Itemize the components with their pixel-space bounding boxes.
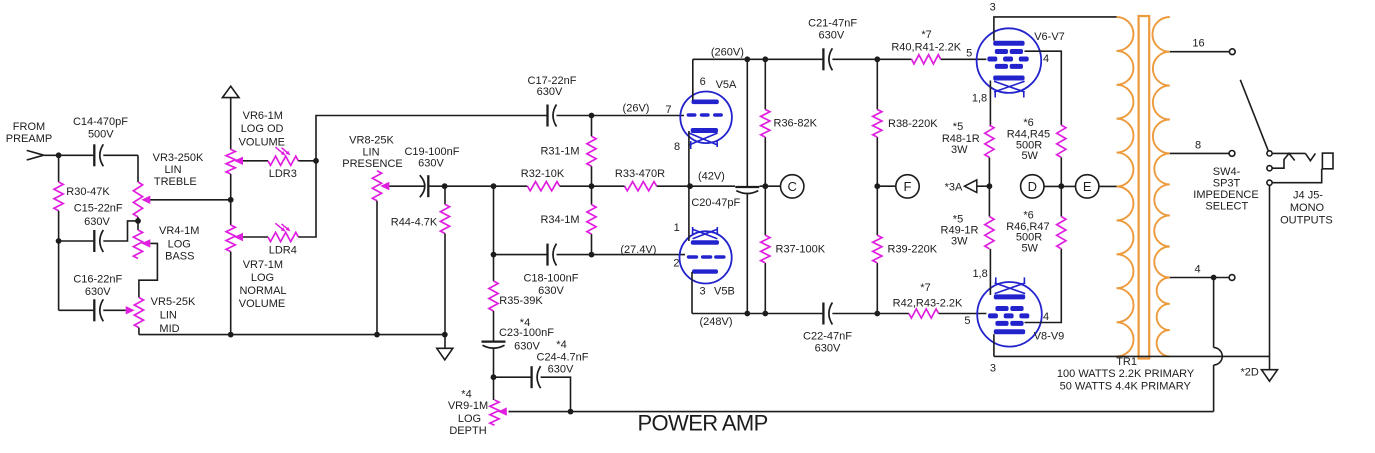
svg-text:*4: *4 [556, 339, 566, 351]
svg-text:630V: 630V [819, 29, 845, 41]
resistor R37 [761, 235, 770, 263]
svg-text:8: 8 [1195, 140, 1201, 152]
svg-text:TREBLE: TREBLE [154, 176, 197, 188]
svg-text:*6: *6 [1023, 117, 1033, 129]
node [744, 56, 750, 62]
svg-text:630V: 630V [815, 343, 841, 355]
svg-text:2: 2 [673, 257, 679, 269]
svg-text:VR8-25K: VR8-25K [349, 135, 394, 147]
capacitor C22 [822, 303, 824, 325]
transformer TR1 primary winding [1117, 17, 1134, 356]
svg-text:R40,R41-2.2K: R40,R41-2.2K [891, 41, 961, 53]
svg-text:630V: 630V [537, 86, 563, 98]
potentiometer VR8 [372, 171, 381, 201]
svg-text:4: 4 [1194, 264, 1200, 276]
tube V5A envelope [680, 92, 732, 144]
wire NFB rail [509, 411, 1214, 413]
switch SW4 lever [1240, 80, 1268, 151]
potentiometer VR3 [133, 182, 142, 217]
node VR3-wiper junction [228, 197, 234, 203]
svg-text:(248V): (248V) [699, 316, 732, 328]
svg-text:C18-100nF: C18-100nF [523, 273, 578, 285]
svg-text:VR9-1M: VR9-1M [448, 400, 488, 412]
svg-text:C: C [788, 179, 797, 194]
wire [832, 58, 911, 60]
wire 260V rail [693, 58, 823, 60]
resistor R44 [440, 204, 449, 233]
wire [58, 211, 60, 311]
transformer TR1 secondary winding [1152, 17, 1169, 356]
tube V6-V7 screen grid [995, 49, 1008, 54]
svg-text:*6: *6 [1023, 209, 1033, 221]
tube V8-V9 screen grid [995, 321, 1008, 326]
wire tap 16 [1170, 51, 1230, 53]
svg-text:R36-82K: R36-82K [774, 117, 818, 129]
svg-text:MONO: MONO [1290, 202, 1325, 214]
svg-text:C24-4.7nF: C24-4.7nF [537, 352, 589, 364]
svg-text:TR1: TR1 [1116, 356, 1137, 368]
svg-text:POWER AMP: POWER AMP [637, 411, 767, 436]
wire VR3 wiper [150, 199, 230, 201]
svg-text:*4: *4 [461, 389, 471, 401]
svg-text:C15-22nF: C15-22nF [74, 203, 123, 215]
wire NFB with hop [1213, 278, 1215, 348]
svg-text:4: 4 [1043, 311, 1049, 323]
svg-text:4: 4 [1043, 53, 1049, 65]
capacitor C14 [93, 144, 95, 166]
svg-text:500V: 500V [88, 129, 114, 141]
wire [494, 376, 531, 378]
tube V8-V9 control grid [988, 313, 998, 318]
svg-text:C21-47nF: C21-47nF [808, 18, 857, 30]
tube V8-V9 envelope [977, 282, 1042, 347]
potentiometer VR5 [134, 298, 143, 328]
wire pin3 [691, 272, 693, 314]
wire [1099, 185, 1117, 187]
svg-text:LOG OD: LOG OD [241, 123, 284, 135]
svg-text:VR7-1M: VR7-1M [243, 259, 283, 271]
resistor R42 R43 [909, 309, 939, 318]
node [491, 374, 497, 380]
resistor R46,R47 [1057, 217, 1066, 249]
svg-text:C20-47pF: C20-47pF [691, 197, 740, 209]
LDR LDR3 [268, 156, 298, 165]
svg-text:J4 J5-: J4 J5- [1293, 190, 1323, 202]
resistor R39 [873, 235, 882, 263]
svg-text:SP3T: SP3T [1213, 178, 1241, 190]
capacitor C20 [735, 186, 759, 188]
wire [941, 58, 987, 60]
wire pin1 [688, 186, 690, 241]
svg-text:50 WATTS 4.4K PRIMARY: 50 WATTS 4.4K PRIMARY [1060, 381, 1192, 393]
wire C20 line [746, 59, 748, 187]
wire pin3 [994, 17, 1117, 41]
svg-text:*3A: *3A [945, 181, 963, 193]
wire tap 8 [1170, 152, 1229, 154]
node [762, 311, 768, 317]
svg-text:R35-39K: R35-39K [499, 295, 543, 307]
tube V6-V7 envelope [977, 28, 1042, 93]
wire [103, 154, 138, 156]
svg-text:IMPEDENCE: IMPEDENCE [1193, 189, 1258, 201]
tube V8-V9 cathode [994, 294, 1025, 299]
wire [103, 221, 138, 241]
svg-text:1: 1 [674, 222, 680, 234]
svg-text:PREAMP: PREAMP [6, 133, 52, 145]
wire [493, 311, 495, 342]
LDR LDR4 [268, 232, 298, 241]
wire [494, 185, 528, 187]
svg-text:C23-100nF: C23-100nF [499, 327, 554, 339]
svg-text:C14-470pF: C14-470pF [73, 116, 128, 128]
svg-text:NORMAL: NORMAL [239, 285, 286, 297]
wire [376, 201, 378, 335]
wire [428, 185, 493, 187]
svg-text:C22-47nF: C22-47nF [803, 331, 852, 343]
svg-text:R30-47K: R30-47K [66, 186, 110, 198]
svg-text:*5: *5 [953, 121, 963, 133]
resistor R49 [985, 217, 994, 249]
node [1058, 183, 1064, 189]
svg-text:3W: 3W [951, 236, 968, 248]
arrow *3A [965, 180, 977, 193]
svg-text:630V: 630V [84, 216, 110, 228]
svg-text:VR6-1M: VR6-1M [243, 110, 283, 122]
svg-text:VOLUME: VOLUME [239, 136, 285, 148]
svg-text:SW4-: SW4- [1213, 166, 1241, 178]
svg-text:LIN: LIN [362, 146, 379, 158]
tube V5B envelope [680, 231, 732, 283]
svg-text:C16-22nF: C16-22nF [73, 274, 122, 286]
tube V6-V7 control grid [987, 57, 997, 62]
wire [103, 309, 125, 311]
transformer TR1 core [1139, 16, 1150, 359]
svg-text:7: 7 [666, 104, 672, 116]
wire [298, 160, 316, 162]
tube V5A cathode [691, 128, 718, 133]
capacitor C18 [546, 244, 548, 266]
ground *2D [1262, 370, 1278, 382]
wire [690, 185, 735, 187]
wire R36 column [764, 59, 766, 109]
svg-text:1,8: 1,8 [972, 93, 987, 105]
resistor R31 [587, 136, 596, 166]
input arrow from preamp [27, 150, 44, 155]
wire [59, 240, 94, 242]
terminal 16 [1229, 49, 1235, 55]
svg-text:100 WATTS 2.2K PRIMARY: 100 WATTS 2.2K PRIMARY [1057, 368, 1195, 380]
capacitor C19 [427, 175, 429, 197]
resistor R30 [54, 182, 63, 211]
wire [560, 185, 592, 187]
wire [58, 155, 60, 182]
svg-text:R39-220K: R39-220K [888, 244, 938, 256]
circle node E [1076, 175, 1099, 198]
svg-text:3: 3 [990, 2, 996, 14]
wire VR6 wiper [243, 160, 268, 162]
svg-text:LIN: LIN [160, 309, 177, 321]
node VR8 bottom [374, 332, 380, 338]
capacitor C15 [93, 230, 95, 252]
circle node D [1021, 175, 1044, 198]
tube V6-V7 heater [994, 81, 1025, 92]
svg-text:1,8: 1,8 [972, 268, 987, 280]
wire VR8 wiper [389, 185, 424, 187]
svg-text:OUTPUTS: OUTPUTS [1280, 215, 1333, 227]
svg-text:R38-220K: R38-220K [888, 118, 938, 130]
potentiometer VR7 [226, 225, 235, 252]
wire [493, 186, 495, 281]
jack sleeve terminal [1267, 180, 1272, 185]
node LDR junction [313, 158, 319, 164]
wire [230, 97, 232, 149]
node R35 top [491, 183, 497, 189]
tube V6-V7 suppressor [995, 64, 1008, 69]
svg-text:*7: *7 [920, 282, 930, 294]
node V5 grid junction [687, 183, 693, 189]
tube V5B cathode [691, 240, 719, 244]
resistor R38 [873, 110, 882, 138]
svg-text:5W: 5W [1021, 150, 1038, 162]
wire pin1-8 [989, 81, 991, 126]
capacitor C16 [93, 299, 95, 321]
node A1 [56, 152, 62, 158]
wire [230, 252, 232, 335]
wire pin1-8 [989, 249, 991, 295]
tube V8-V9 anode plate [994, 329, 1025, 334]
svg-text:3: 3 [700, 286, 706, 298]
svg-text:*2D: *2D [1241, 366, 1259, 378]
tube V8-V9 suppressor [995, 306, 1008, 311]
svg-text:MID: MID [159, 323, 179, 335]
svg-text:630V: 630V [548, 364, 574, 376]
svg-text:V8-V9: V8-V9 [1034, 331, 1065, 343]
wire [44, 154, 94, 156]
svg-text:LDR3: LDR3 [269, 168, 297, 180]
svg-text:LIN: LIN [164, 164, 181, 176]
capacitor C17 [546, 105, 548, 127]
wire [494, 254, 547, 256]
svg-text:FROM: FROM [13, 121, 45, 133]
svg-text:R42,R43-2.2K: R42,R43-2.2K [893, 298, 963, 310]
tube V5A grid [687, 113, 697, 116]
terminal 8 [1229, 151, 1235, 157]
svg-text:R32-10K: R32-10K [521, 168, 565, 180]
wire [592, 185, 625, 187]
svg-text:6: 6 [700, 76, 706, 88]
svg-text:V6-V7: V6-V7 [1034, 31, 1065, 43]
tube V5B anode plate [692, 269, 718, 273]
svg-text:VR3-250K: VR3-250K [153, 152, 204, 164]
wire [230, 174, 232, 225]
node C18 junction [589, 252, 595, 258]
wire pin6 [692, 59, 694, 100]
potentiometer VR9 [490, 400, 499, 425]
svg-text:(42V): (42V) [698, 171, 725, 183]
wire [444, 234, 446, 349]
circle node F [896, 175, 919, 198]
wire [138, 328, 140, 335]
node feedback tap [1211, 275, 1217, 281]
wire VR7 wiper [243, 236, 268, 238]
potentiometer VR6 [226, 149, 235, 174]
svg-text:VR4-1M: VR4-1M [159, 225, 199, 237]
svg-text:630V: 630V [418, 158, 444, 170]
svg-text:R33-470R: R33-470R [615, 168, 665, 180]
svg-text:LDR4: LDR4 [269, 245, 297, 257]
svg-text:E: E [1083, 179, 1092, 194]
wire pin4 [1025, 249, 1062, 323]
wire [541, 377, 571, 411]
svg-text:R31-1M: R31-1M [540, 146, 579, 158]
jack break contact [1272, 153, 1295, 168]
node [762, 183, 768, 189]
node VR3 bottom [135, 218, 141, 224]
tube V6-V7 cathode [993, 76, 1024, 81]
jack sleeve [1272, 169, 1322, 183]
node C19/R44 junction [442, 183, 448, 189]
node A2 [56, 238, 62, 244]
node VR7 bottom [228, 332, 234, 338]
power arrow up [222, 86, 239, 97]
svg-text:VR5-25K: VR5-25K [151, 296, 196, 308]
wire [939, 313, 987, 315]
resistor R40 R41 [912, 55, 941, 64]
svg-text:LOG: LOG [168, 238, 191, 250]
wire ground line [1269, 185, 1271, 369]
jack contact terminal [1267, 166, 1272, 171]
resistor R32 [528, 182, 560, 191]
node [874, 183, 880, 189]
wire R38 column [876, 59, 878, 109]
svg-text:630V: 630V [85, 286, 111, 298]
wire [59, 309, 94, 311]
wire [137, 217, 139, 230]
svg-text:D: D [1028, 179, 1037, 194]
resistor R36 [761, 110, 770, 138]
svg-text:V5A: V5A [716, 79, 737, 91]
svg-text:F: F [904, 179, 912, 194]
terminal 4 [1229, 275, 1235, 281]
node R31 top [589, 113, 595, 119]
svg-text:5: 5 [964, 315, 970, 327]
wire [591, 116, 593, 137]
svg-text:5W: 5W [1021, 242, 1038, 254]
tube V5A anode plate [692, 100, 719, 105]
svg-text:VOLUME: VOLUME [239, 298, 285, 310]
svg-text:16: 16 [1192, 38, 1204, 50]
tube V5B heater [693, 229, 718, 239]
wire [988, 157, 990, 216]
wire [1060, 157, 1062, 216]
resistor R34 [587, 205, 596, 235]
wire [591, 234, 593, 255]
wire tap 4 [1170, 277, 1229, 279]
svg-text:DEPTH: DEPTH [449, 425, 486, 437]
svg-text:R37-100K: R37-100K [776, 244, 826, 256]
capacitor C24 [530, 366, 532, 388]
node R32/R33 junction [589, 183, 595, 189]
wire bottom rail left [139, 334, 445, 336]
node [874, 311, 880, 317]
wire [832, 313, 909, 315]
ground [437, 348, 453, 360]
svg-text:(260V): (260V) [711, 46, 744, 58]
wire VR4 wiper [139, 243, 158, 297]
tube V5A heater [689, 133, 718, 145]
svg-text:3: 3 [990, 363, 996, 375]
resistor R33 [625, 182, 657, 191]
node [568, 409, 574, 415]
svg-text:*7: *7 [921, 29, 931, 41]
svg-text:R44-4.7K: R44-4.7K [391, 217, 438, 229]
capacitor C23 [482, 340, 506, 342]
wire [493, 348, 495, 400]
node *3A junction [987, 183, 993, 189]
wire 248V rail [692, 313, 822, 315]
wire pin8 [688, 131, 690, 186]
svg-text:8: 8 [674, 141, 680, 153]
svg-text:(26V): (26V) [623, 103, 650, 115]
tube V6-V7 anode plate [993, 41, 1024, 46]
node R35 mid [491, 252, 497, 258]
resistor R35 [489, 281, 498, 311]
tube V8-V9 heater [995, 283, 1026, 294]
svg-text:LOG: LOG [458, 413, 481, 425]
jack pole terminal [1267, 151, 1272, 156]
wire [746, 194, 748, 314]
wire transformer bottom [994, 355, 1270, 357]
wire [877, 185, 896, 187]
wire pin3 [993, 334, 995, 356]
svg-text:C19-100nF: C19-100nF [404, 146, 459, 158]
node [874, 56, 880, 62]
node ground junction [442, 332, 448, 338]
wire pin4 [1025, 51, 1062, 125]
wire [557, 115, 685, 117]
capacitor C21 [822, 48, 824, 70]
resistor R44,R45 [1057, 125, 1066, 157]
tube V5B grid [687, 255, 698, 258]
svg-text:LOG: LOG [251, 272, 274, 284]
node [744, 311, 750, 317]
resistor R48 [985, 125, 994, 157]
svg-text:R34-1M: R34-1M [540, 214, 579, 226]
circle node C [781, 175, 804, 198]
wire [298, 116, 546, 238]
svg-text:3W: 3W [951, 144, 968, 156]
potentiometer VR4 [133, 230, 142, 259]
svg-text:V5B: V5B [714, 285, 735, 297]
wire [557, 254, 686, 256]
svg-text:PRESENCE: PRESENCE [342, 158, 403, 170]
svg-text:5: 5 [966, 48, 972, 60]
wire [1044, 185, 1076, 187]
wire jack tip [1272, 152, 1305, 154]
node [762, 56, 768, 62]
svg-text:BASS: BASS [165, 251, 194, 263]
svg-text:SELECT: SELECT [1205, 201, 1248, 213]
